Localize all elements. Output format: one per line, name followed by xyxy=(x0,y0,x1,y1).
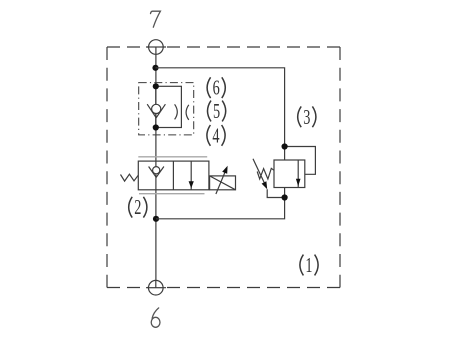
valve (2) position divider xyxy=(172,161,174,190)
relief valve (3) spring xyxy=(257,168,274,179)
node: check valve bottom junction dot xyxy=(153,124,159,130)
wire: main vertical line from port 7 to port 6 xyxy=(155,47,157,288)
enclosure dashed boundary right edge xyxy=(339,47,341,288)
node: bottom branch junction dot xyxy=(153,216,159,222)
wire: branch from bottom junction to relief valve bottom port xyxy=(156,188,285,219)
node: top branch junction dot xyxy=(152,65,158,71)
port 6 circle xyxy=(146,280,166,295)
solenoid of valve (2) xyxy=(210,166,236,194)
check valve assembly outer dash-dot box (4) xyxy=(139,83,194,135)
port 7 circle xyxy=(146,40,166,55)
enclosure dashed boundary left edge xyxy=(106,47,108,288)
svg-text:3: 3 xyxy=(303,105,310,128)
relief valve (3) drain line xyxy=(267,189,284,197)
valve (2) check valve symbol xyxy=(149,167,164,178)
enclosure dashed boundary bottom edge xyxy=(107,287,340,289)
node: relief valve top junction dot xyxy=(282,143,288,149)
label (1) xyxy=(300,253,318,276)
wire: branch from top junction to relief valve top port xyxy=(156,68,285,160)
svg-text:4: 4 xyxy=(212,124,219,147)
label (5) xyxy=(208,99,226,122)
check valve inner solid box (5) xyxy=(156,86,182,127)
node: check valve top junction dot xyxy=(153,83,159,89)
svg-text:5: 5 xyxy=(213,99,220,122)
node: relief valve bottom junction dot xyxy=(282,194,288,200)
valve (2) spring xyxy=(121,174,139,181)
valve (2) body xyxy=(138,161,209,190)
label (6) xyxy=(207,76,225,99)
enclosure dashed boundary top edge xyxy=(107,46,340,48)
relief valve (3) internal flow arrow xyxy=(296,160,301,188)
check valve C1 ball and seat xyxy=(147,104,165,118)
relief valve (3) pilot line xyxy=(285,147,316,175)
valve (2) shadow line above xyxy=(138,156,207,158)
valve (2) flow arrow in right position xyxy=(189,161,194,190)
relief valve (3) adjustment arrow xyxy=(253,159,267,189)
label 6 (bottom port) xyxy=(151,308,160,327)
svg-text:6: 6 xyxy=(213,76,220,99)
label (3) xyxy=(298,105,316,128)
label (2) xyxy=(129,195,147,218)
relief valve (3) body xyxy=(274,160,305,188)
label (4) xyxy=(207,124,225,147)
orifice arcs on check valve box edge xyxy=(175,104,178,119)
svg-text:2: 2 xyxy=(134,195,141,218)
valve (2) shadow line below xyxy=(139,193,205,195)
label 7 (top port) xyxy=(151,11,161,27)
svg-text:1: 1 xyxy=(305,253,312,276)
